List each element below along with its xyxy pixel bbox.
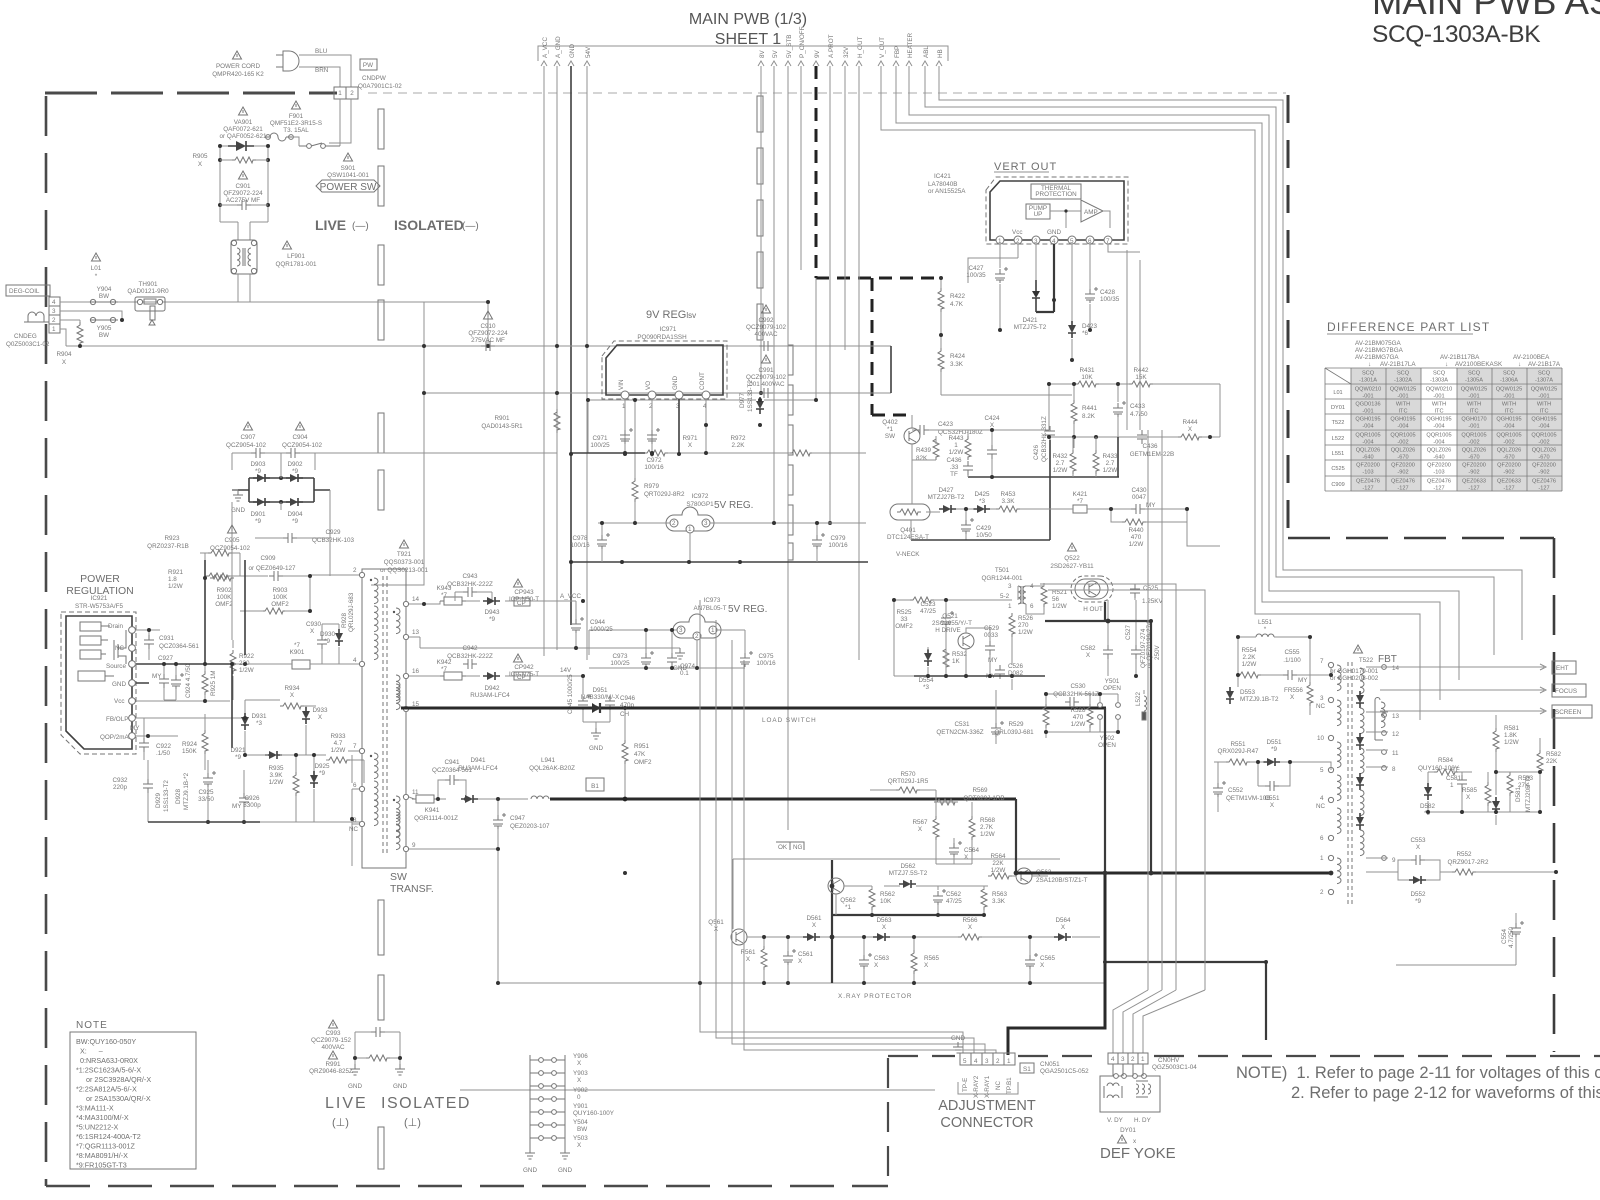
svg-text:C979: C979 [830, 535, 846, 542]
capacitor C922 [139, 738, 149, 752]
diode D564 [1054, 933, 1071, 941]
svg-text:3: 3 [1320, 695, 1324, 702]
wire pin11 B1 line y799 [409, 797, 528, 799]
svg-text:D921: D921 [230, 747, 246, 754]
svg-text:QMPR420-165 K2: QMPR420-165 K2 [212, 71, 264, 78]
cap C530 [1065, 697, 1079, 707]
svg-text:1/2W: 1/2W [980, 831, 995, 838]
svg-text:1/2W: 1/2W [269, 779, 284, 786]
svg-text:C565: C565 [1040, 955, 1056, 962]
svg-text:CP: CP [517, 600, 526, 607]
resistor R935 [293, 772, 299, 796]
ecap C531 [991, 721, 1004, 737]
thick H OUT line [1045, 602, 1151, 621]
svg-text:QQW0125: QQW0125 [1531, 387, 1557, 393]
wires k901 [205, 576, 362, 700]
svg-text:QFZ0200: QFZ0200 [1427, 463, 1451, 469]
svg-text:ITC: ITC [1504, 409, 1513, 415]
svg-text:VERT OUT: VERT OUT [994, 161, 1057, 173]
svg-text:VA901: VA901 [234, 119, 253, 126]
svg-text:6: 6 [1320, 835, 1324, 842]
svg-text:-1306A: -1306A [1500, 378, 1518, 384]
svg-text:V_OUT: V_OUT [879, 37, 886, 58]
svg-text:QEZ0476: QEZ0476 [1427, 479, 1451, 485]
svg-text:4.7: 4.7 [334, 740, 343, 747]
svg-text:Q401: Q401 [900, 527, 916, 534]
diode D582 [1424, 783, 1432, 800]
svg-text:S1: S1 [1023, 1066, 1031, 1073]
resistor R431 [1075, 381, 1099, 387]
svg-text:BW: BW [577, 1126, 587, 1133]
svg-text:C433: C433 [1130, 403, 1146, 410]
svg-text:-670: -670 [1503, 455, 1514, 461]
svg-text:R529: R529 [1008, 721, 1024, 728]
svg-text:-004: -004 [1397, 424, 1408, 430]
svg-text:Q0A7901C1-02: Q0A7901C1-02 [358, 83, 402, 90]
IC921 pins right [129, 627, 136, 740]
svg-text:SCREEN: SCREEN [1555, 709, 1582, 716]
svg-text:2: 2 [996, 1058, 1000, 1065]
svg-text:QRX029J-R47: QRX029J-R47 [1218, 748, 1259, 755]
svg-text:SCQ-1303A-BK: SCQ-1303A-BK [1372, 21, 1541, 48]
svg-text:15K: 15K [1135, 374, 1147, 381]
svg-text:2: 2 [1016, 238, 1020, 245]
thick wire pin15 B+ line y708 [401, 707, 596, 710]
cap C430 [1131, 504, 1145, 514]
wires below connector [329, 99, 351, 146]
svg-text:MTZJ9.1B-T2: MTZJ9.1B-T2 [1240, 696, 1279, 703]
svg-text:GND: GND [348, 1083, 362, 1090]
wires right [1428, 715, 1540, 825]
svg-text:32V: 32V [843, 46, 850, 58]
svg-text:-902: -902 [1503, 470, 1514, 476]
svg-text:D425: D425 [974, 491, 990, 498]
svg-text:D421: D421 [1022, 317, 1038, 324]
svg-text:QRT029J-1R5: QRT029J-1R5 [888, 778, 929, 785]
svg-text:9V REGlsv: 9V REGlsv [646, 309, 696, 321]
dark drop at 891 [890, 346, 892, 393]
resistor R422 [938, 288, 944, 312]
svg-text:MY: MY [152, 673, 162, 680]
svg-text:B1: B1 [591, 783, 599, 790]
svg-text:*1: *1 [845, 904, 851, 911]
svg-text:4.7/50: 4.7/50 [1130, 411, 1148, 418]
svg-text:GETM1EM-22B: GETM1EM-22B [1130, 451, 1174, 458]
varistor VA901 [228, 141, 254, 151]
svg-text:QUY160-100Y: QUY160-100Y [573, 1110, 615, 1117]
wire B+ to FBT [1104, 708, 1106, 873]
cap C974 [667, 653, 677, 667]
thermistor TH901 [135, 297, 165, 325]
svg-text:C531: C531 [954, 721, 970, 728]
svg-text:ITC: ITC [1469, 409, 1478, 415]
svg-text:QCB32HK-331Z: QCB32HK-331Z [1041, 416, 1048, 462]
svg-text:1/2W: 1/2W [1053, 467, 1068, 474]
diode D930 [335, 629, 343, 646]
svg-text:R565: R565 [924, 955, 940, 962]
svg-text:-004: -004 [1503, 424, 1514, 430]
svg-text:-127: -127 [1538, 486, 1549, 492]
fuse F901 [266, 133, 292, 141]
svg-text:*8:MA8091/H/-X: *8:MA8091/H/-X [76, 1151, 128, 1160]
resistor R901 vertical [554, 409, 560, 433]
svg-text:D562: D562 [900, 863, 916, 870]
svg-text:X-RAY1: X-RAY1 [984, 1075, 991, 1098]
svg-text:R431: R431 [1079, 367, 1095, 374]
svg-text:*1:2SC1623A/5-6/-X: *1:2SC1623A/5-6/-X [76, 1066, 141, 1075]
connector CNDHV [1108, 1053, 1148, 1064]
svg-text:SCQ: SCQ [1433, 371, 1446, 377]
CP943 box [514, 598, 530, 606]
DEG-COIL box [6, 285, 50, 296]
svg-text:C563: C563 [874, 955, 890, 962]
border mid dashed horizontal [1288, 537, 1554, 540]
capacitor C909 [269, 571, 283, 581]
svg-text:NC: NC [115, 645, 125, 652]
svg-text:QEZ0633: QEZ0633 [1497, 479, 1521, 485]
svg-text:SCQ: SCQ [1362, 371, 1375, 377]
svg-text:GND: GND [589, 745, 603, 752]
svg-text:-002: -002 [1468, 440, 1479, 446]
svg-text:100/35: 100/35 [966, 272, 986, 279]
POWER SW hexagon [316, 180, 380, 192]
resistor FR556 [1307, 682, 1313, 706]
svg-text:4: 4 [974, 1058, 978, 1065]
svg-text:R902: R902 [216, 587, 232, 594]
svg-text:C430: C430 [1131, 487, 1147, 494]
svg-text:-001: -001 [1397, 394, 1408, 400]
transistor Q521 [958, 633, 974, 649]
svg-text:R526: R526 [1018, 615, 1034, 622]
resistor R444 [1178, 434, 1202, 440]
svg-text:QQL26AK-B20Z: QQL26AK-B20Z [529, 765, 575, 772]
resistor R443 [965, 436, 971, 460]
svg-text:C942: C942 [462, 645, 478, 652]
svg-text:C582: C582 [1080, 645, 1096, 652]
svg-text:*9: *9 [489, 616, 495, 623]
resistor R568 [969, 816, 975, 840]
svg-text:X-RAY2: X-RAY2 [973, 1075, 980, 1098]
svg-text:0047: 0047 [1132, 494, 1147, 501]
svg-text:BW: BW [99, 332, 109, 339]
svg-text:H. DY: H. DY [1134, 1117, 1152, 1124]
wire SCREEN [1380, 708, 1546, 714]
ecap C975 [740, 651, 753, 667]
capacitor C992 [759, 341, 773, 351]
border left dashed [45, 96, 48, 1186]
wires load switch [1046, 690, 1144, 738]
svg-text:H DRIVE: H DRIVE [935, 627, 961, 634]
svg-text:MAIN PWB AS: MAIN PWB AS [1372, 0, 1600, 22]
svg-text:1/2W: 1/2W [331, 747, 346, 754]
capacitor C905 [283, 533, 297, 543]
resistor R904 [77, 322, 83, 346]
svg-text:MTZJ7.5S-T2: MTZJ7.5S-T2 [889, 870, 928, 877]
svg-text:-004: -004 [1433, 424, 1444, 430]
resistor R979 [632, 478, 638, 502]
svg-text:TF: TF [1452, 767, 1460, 774]
svg-text:T501: T501 [995, 567, 1010, 574]
bus line FBP [893, 46, 1440, 700]
warning C904 [296, 422, 305, 430]
gnd symbols [525, 1148, 535, 1159]
svg-text:QQW0125: QQW0125 [1390, 387, 1416, 393]
svg-text:-127: -127 [1362, 486, 1373, 492]
svg-text:C992: C992 [758, 317, 774, 324]
bus line HB [936, 49, 1522, 640]
svg-text:C931: C931 [159, 635, 175, 642]
svg-text:1/2W: 1/2W [1052, 603, 1067, 610]
svg-text:BLU: BLU [315, 48, 328, 55]
svg-text:1/2W: 1/2W [168, 583, 183, 590]
svg-text:C932: C932 [112, 777, 128, 784]
svg-text:P_ON/OFF: P_ON/OFF [799, 26, 806, 58]
svg-text:or AN15525A: or AN15525A [928, 188, 966, 195]
svg-text:NG: NG [793, 844, 803, 851]
resistor R563 [981, 886, 987, 910]
capacitor C904 [286, 448, 300, 458]
svg-text:D928: D928 [175, 788, 182, 804]
svg-text:QMF51E2-3R15-S: QMF51E2-3R15-S [270, 120, 322, 127]
transformer T501 [1018, 586, 1026, 604]
svg-text:A_VCC: A_VCC [560, 593, 581, 600]
svg-text:*9:FR105GT-T3: *9:FR105GT-T3 [76, 1161, 127, 1170]
svg-text:or QEZ0649-127: or QEZ0649-127 [249, 565, 296, 572]
svg-text:QCZ9079-102: QCZ9079-102 [746, 374, 786, 381]
svg-text:CN051: CN051 [1040, 1061, 1060, 1068]
svg-text:54V: 54V [585, 46, 592, 58]
svg-text:*3: *3 [923, 684, 929, 691]
svg-text:CONNECTOR: CONNECTOR [940, 1115, 1033, 1131]
svg-text:SW: SW [390, 871, 407, 883]
svg-text:QFZ0200: QFZ0200 [1356, 463, 1380, 469]
svg-text:5V REG.: 5V REG. [728, 604, 767, 615]
svg-text:NOTE: NOTE [76, 1020, 108, 1031]
cap C426 [1045, 426, 1055, 440]
diode D552 [1409, 876, 1426, 884]
capacitor C423 [915, 425, 929, 435]
ecap C971 [620, 428, 633, 444]
cap C526 [995, 665, 1005, 679]
svg-text:-902: -902 [1538, 470, 1549, 476]
svg-text:-127: -127 [1468, 486, 1479, 492]
svg-text:470: 470 [1073, 714, 1084, 721]
svg-text:QFZ0200: QFZ0200 [1391, 463, 1415, 469]
svg-text:R585: R585 [1462, 787, 1478, 794]
svg-text:3.9K: 3.9K [270, 772, 284, 779]
gnd at connector [953, 1042, 963, 1053]
svg-text:SCQ: SCQ [1468, 371, 1481, 377]
ecap C433 [1113, 401, 1126, 417]
wires [583, 710, 610, 728]
bus line P_ON/OFF [798, 26, 806, 270]
svg-text:VO: VO [645, 381, 652, 390]
diode D554 [924, 649, 932, 666]
diode D427 [939, 505, 956, 513]
svg-text:Y504: Y504 [573, 1119, 588, 1126]
wires right pins [1366, 712, 1388, 858]
svg-text:L01: L01 [1333, 390, 1342, 396]
transformer T921 windings secondary [396, 608, 400, 850]
svg-text:or GGH0208-002: or GGH0208-002 [1330, 675, 1379, 682]
resistor R529 [1043, 704, 1049, 728]
svg-text:CP: CP [517, 674, 526, 681]
svg-text:MTZJ27B-T2: MTZJ27B-T2 [928, 494, 965, 501]
svg-text:-127: -127 [1503, 486, 1514, 492]
divider column x380 [378, 109, 384, 1169]
svg-text:AV-21B17A: AV-21B17A [1528, 361, 1561, 368]
svg-text:QQR1005: QQR1005 [1531, 433, 1556, 439]
svg-text:C525: C525 [1331, 466, 1344, 472]
svg-text:Q522: Q522 [1064, 555, 1080, 562]
resistor R951 [622, 740, 628, 764]
svg-text:Y902: Y902 [573, 1087, 588, 1094]
svg-text:5-2: 5-2 [1000, 593, 1010, 600]
svg-text:C436: C436 [1142, 443, 1158, 450]
svg-text:TF: TF [950, 471, 958, 478]
svg-text:2.7: 2.7 [1056, 460, 1065, 467]
svg-text:QEZ0476: QEZ0476 [1356, 479, 1380, 485]
svg-text:QQLZ026: QQLZ026 [1532, 448, 1557, 454]
svg-text:GND: GND [393, 1083, 407, 1090]
svg-text:400VAC: 400VAC [322, 1044, 345, 1051]
svg-text:R903: R903 [272, 587, 288, 594]
svg-text:*6:1SR124-400A-T2: *6:1SR124-400A-T2 [76, 1132, 141, 1141]
svg-text:D427: D427 [938, 487, 954, 494]
svg-text:QRZ9046-825Z: QRZ9046-825Z [309, 1068, 353, 1075]
FOCUS box [1552, 684, 1586, 697]
svg-text:QGD0136: QGD0136 [1355, 402, 1380, 408]
svg-text:13: 13 [1392, 713, 1400, 720]
svg-text:OPEN: OPEN [1103, 685, 1121, 692]
svg-text:QCB32HK-222Z: QCB32HK-222Z [447, 581, 493, 588]
wires q401/402 [912, 436, 1220, 546]
svg-text:2: 2 [1131, 1056, 1135, 1063]
svg-text:QGH0195: QGH0195 [1496, 417, 1521, 423]
svg-text:CONT: CONT [699, 372, 706, 390]
resistor R921 [210, 575, 234, 581]
svg-text:1/2W: 1/2W [1504, 739, 1519, 746]
svg-text:16: 16 [412, 668, 420, 675]
svg-text:-670: -670 [1468, 455, 1479, 461]
svg-text:-001: -001 [1503, 394, 1514, 400]
svg-text:*7:QGR1113-001Z: *7:QGR1113-001Z [76, 1142, 135, 1151]
svg-text:D943: D943 [484, 609, 500, 616]
svg-text:R922: R922 [239, 653, 255, 660]
bus line 5V_STB [785, 35, 793, 830]
svg-text:PROTECTION: PROTECTION [1035, 191, 1077, 198]
resistor R972 [789, 450, 813, 456]
svg-text:AV2100BEKASK: AV2100BEKASK [1455, 361, 1503, 368]
svg-text:MY: MY [232, 803, 242, 810]
svg-text:QCZ0364-561: QCZ0364-561 [159, 643, 199, 650]
bus bracket [538, 46, 948, 61]
svg-text:4.7/250: 4.7/250 [1508, 926, 1515, 948]
svg-text:AV-2100BEA: AV-2100BEA [1513, 354, 1550, 361]
wires L551 [1230, 637, 1331, 715]
resistor R521 [1041, 583, 1047, 607]
wires [870, 790, 972, 864]
svg-text:1SS133-T2: 1SS133-T2 [747, 380, 754, 412]
svg-text:F901: F901 [289, 113, 304, 120]
svg-text:ISOLATED: ISOLATED [381, 1095, 471, 1112]
svg-text:C930: C930 [306, 621, 322, 628]
svg-text:D901: D901 [250, 511, 266, 518]
svg-text:IC973: IC973 [704, 597, 721, 604]
svg-text:6: 6 [1030, 603, 1034, 610]
svg-text:D941: D941 [470, 757, 486, 764]
svg-text:2.7K: 2.7K [980, 824, 994, 831]
fuse K941 [412, 795, 438, 803]
cap C527 [1131, 645, 1141, 659]
svg-text:BW: BW [99, 293, 109, 300]
svg-text:LIVE: LIVE [325, 1095, 368, 1112]
svg-text:OPEN: OPEN [1098, 742, 1116, 749]
FBT inner right windings [1375, 698, 1383, 741]
svg-text:4: 4 [1052, 238, 1056, 245]
svg-text:AV-21BMG7BGA: AV-21BMG7BGA [1355, 347, 1404, 354]
warning CP942 [514, 654, 523, 662]
svg-text:AV-21BMG7GA: AV-21BMG7GA [1355, 354, 1399, 361]
transistor Q561 [731, 929, 747, 945]
warning C907 [244, 422, 253, 430]
IC421 thick outline [990, 181, 1124, 240]
border bottom-right horizontal dashed [888, 1055, 1600, 1057]
svg-text:QCB32HK-103: QCB32HK-103 [312, 537, 354, 544]
svg-text:AV-21BM075GA: AV-21BM075GA [1355, 340, 1402, 347]
ecap C979 [812, 533, 825, 549]
svg-text:(⊥): (⊥) [332, 1117, 349, 1129]
svg-text:NC: NC [995, 1080, 1002, 1090]
svg-text:C944: C944 [590, 619, 606, 626]
svg-text:VIN: VIN [618, 379, 625, 390]
svg-text:A_VCC: A_VCC [542, 37, 549, 58]
svg-text:D904: D904 [287, 511, 303, 518]
header row [1331, 371, 1557, 492]
svg-text:Q562: Q562 [840, 897, 856, 904]
svg-text:D563: D563 [876, 917, 892, 924]
resistor R902 [206, 573, 230, 579]
svg-text:0: 0 [577, 1094, 581, 1101]
capacitor C991 [759, 388, 773, 398]
ecap C428 [1085, 287, 1098, 303]
svg-text:250V: 250V [1154, 644, 1161, 660]
svg-text:1: 1 [954, 442, 958, 449]
svg-text:2: 2 [695, 633, 699, 640]
svg-text:MAIN PWB (1/3): MAIN PWB (1/3) [689, 11, 807, 28]
FBT primary windings [1337, 665, 1341, 884]
switch S901 contacts [299, 143, 340, 146]
capacitor C941 [445, 775, 459, 785]
svg-text:*9: *9 [255, 468, 261, 475]
svg-text:100/16: 100/16 [644, 464, 664, 471]
svg-text:QFZ0200: QFZ0200 [1532, 463, 1556, 469]
bus line 5V [771, 49, 779, 523]
svg-text:R581: R581 [1504, 725, 1520, 732]
svg-text:-902: -902 [1397, 470, 1408, 476]
svg-text:ADJUSTMENT: ADJUSTMENT [938, 1098, 1036, 1114]
svg-text:R532: R532 [952, 651, 968, 658]
wires ic921 right [136, 630, 245, 770]
transistor Q562 [828, 878, 844, 894]
bracket line CN051 [460, 1082, 1018, 1094]
svg-text:AC275V MF: AC275V MF [226, 197, 260, 204]
svg-text:DIFFERENCE PART LIST: DIFFERENCE PART LIST [1327, 320, 1490, 334]
svg-text:QGH0195: QGH0195 [1426, 417, 1451, 423]
wire plug to connector [299, 55, 351, 87]
svg-text:K901: K901 [290, 649, 305, 656]
power cord plug [276, 51, 299, 71]
